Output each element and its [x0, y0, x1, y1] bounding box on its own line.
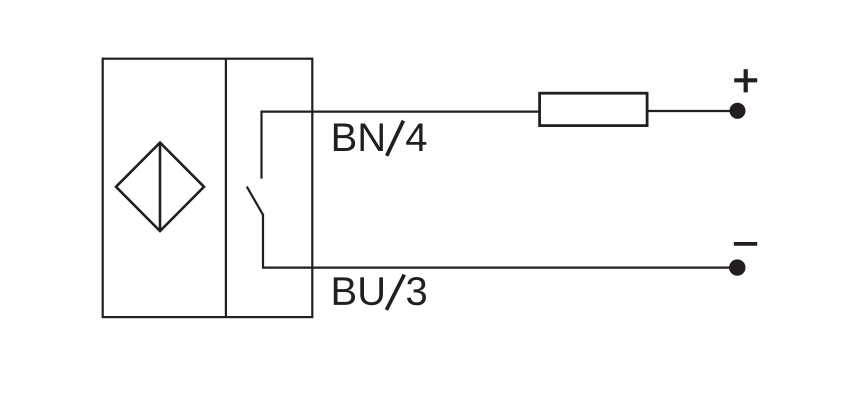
wire label BN	[334, 123, 383, 151]
sensor body outline (outer box)	[103, 59, 313, 317]
switch upper contact (corner + vertical lead)	[262, 112, 540, 179]
+ sign	[734, 78, 757, 82]
wire label 3	[407, 277, 426, 305]
diamond vertical diagonal	[159, 143, 162, 231]
load resistor	[540, 93, 648, 125]
wire label BU	[334, 277, 383, 305]
wire label slash of BN/4	[387, 121, 404, 156]
proximity sensor diamond symbol	[116, 143, 204, 231]
wire from resistor to + terminal	[647, 110, 735, 112]
wire label slash of BU/3	[386, 275, 404, 310]
wire label 4	[406, 123, 426, 151]
- sign	[734, 242, 757, 246]
switch lower contact (vertical lead + corner)	[263, 214, 737, 268]
switch blade	[247, 187, 263, 215]
+ terminal dot	[730, 103, 746, 119]
sensor body divider line	[225, 59, 227, 317]
- terminal dot	[729, 259, 745, 275]
